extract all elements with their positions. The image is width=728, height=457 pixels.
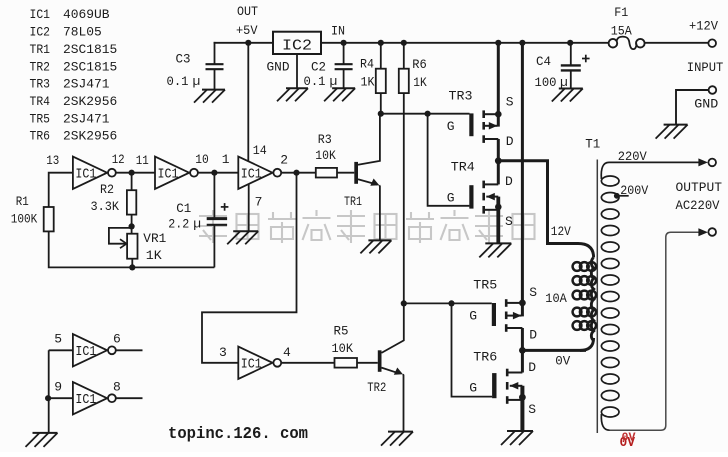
- transistor Q TR1 2SC1815: [344, 114, 380, 241]
- svg-text:R1: R1: [16, 194, 29, 209]
- svg-text:D: D: [505, 174, 513, 189]
- capacitor C4 100u: [535, 40, 590, 90]
- svg-text:IC1: IC1: [75, 167, 96, 182]
- op-amp (inverter) IC1 D pins 3-4: [238, 347, 281, 379]
- svg-text:TR4: TR4: [30, 94, 51, 109]
- resistor R6 1K: [399, 40, 427, 304]
- svg-text:OUT: OUT: [237, 4, 258, 19]
- wire pin13 input: [49, 173, 73, 207]
- svg-text:R5: R5: [334, 324, 349, 339]
- svg-text:µ: µ: [330, 74, 338, 89]
- svg-text:IC1: IC1: [75, 345, 96, 360]
- svg-text:G: G: [469, 308, 477, 323]
- svg-text:IC2: IC2: [282, 38, 312, 54]
- svg-text:0V: 0V: [555, 354, 570, 369]
- svg-text:topinc.126. com: topinc.126. com: [168, 424, 308, 443]
- svg-text:2SC1815: 2SC1815: [63, 42, 117, 57]
- transformer T1 core: [596, 160, 598, 434]
- svg-text:11: 11: [136, 153, 149, 168]
- svg-text:7: 7: [255, 194, 263, 209]
- svg-text:R3: R3: [318, 132, 332, 147]
- svg-text:12V: 12V: [551, 224, 571, 239]
- ground for pin 7: [227, 231, 258, 244]
- resistor R2 3.3K: [91, 173, 137, 227]
- svg-text:G: G: [469, 381, 477, 396]
- op-amp (inverter) IC1 A pins 13-12: [73, 157, 116, 189]
- svg-text:8: 8: [113, 379, 121, 394]
- ground for IC2: [277, 88, 308, 101]
- resistor R4 1K: [360, 40, 386, 114]
- svg-text:+5V: +5V: [236, 23, 258, 38]
- wire 220V output top: [609, 158, 716, 166]
- svg-text:2SK2956: 2SK2956: [63, 129, 117, 144]
- svg-text:IC1: IC1: [158, 167, 179, 182]
- wire TR1 collector to TR3/TR4 gates: [378, 111, 470, 206]
- op-amp (inverter) IC1 F pins 9-8: [73, 382, 116, 414]
- svg-text:9: 9: [54, 379, 62, 394]
- label 0V red marking: [620, 431, 637, 452]
- svg-text:AC220V: AC220V: [676, 198, 720, 213]
- transistor Q TR4 2SK2956: [447, 159, 513, 243]
- wire inverter B out to inverter C: [197, 170, 238, 176]
- node OUT +5V: [236, 4, 258, 46]
- svg-text:0.1: 0.1: [167, 74, 189, 89]
- svg-text:100: 100: [535, 75, 557, 90]
- svg-text:TR1: TR1: [30, 42, 51, 57]
- wire secondary bottom return to output: [610, 232, 699, 430]
- wire fuse to +12V terminal: [645, 42, 709, 44]
- svg-text:VR1: VR1: [143, 231, 166, 246]
- svg-text:13: 13: [46, 153, 59, 168]
- svg-text:TR5: TR5: [30, 111, 51, 126]
- svg-text:0.1: 0.1: [304, 74, 326, 89]
- svg-text:10A: 10A: [545, 291, 567, 306]
- svg-text:10: 10: [195, 152, 209, 167]
- svg-text:100K: 100K: [11, 212, 38, 227]
- parts list table: [30, 7, 118, 143]
- op-amp (inverter) IC1 B pins 11-10: [155, 157, 198, 189]
- svg-text:TR5: TR5: [473, 277, 497, 292]
- svg-text:4069UB: 4069UB: [63, 7, 110, 22]
- svg-text:C3: C3: [176, 52, 191, 67]
- svg-text:TR6: TR6: [473, 349, 497, 364]
- watermark gray CJK text: [199, 210, 535, 243]
- node 200V tap: [614, 193, 629, 199]
- svg-text:TR3: TR3: [449, 89, 473, 104]
- svg-text:GND: GND: [694, 97, 718, 112]
- transistor Q TR5 2SJ471: [469, 277, 537, 350]
- svg-text:2: 2: [280, 153, 288, 168]
- svg-text:G: G: [447, 191, 455, 206]
- svg-text:+12V: +12V: [689, 19, 718, 34]
- svg-text:IC2: IC2: [30, 25, 51, 40]
- wire inverters E/F inputs to ground: [45, 350, 73, 433]
- svg-text:TR2: TR2: [30, 59, 51, 74]
- svg-text:IC1: IC1: [30, 7, 51, 22]
- svg-text:T1: T1: [585, 137, 600, 152]
- transistor Q TR6 2SK2956: [469, 349, 536, 431]
- svg-text:µ: µ: [193, 74, 201, 89]
- svg-text:2SC1815: 2SC1815: [63, 59, 117, 74]
- svg-text:IN: IN: [331, 23, 345, 38]
- ground for C2: [324, 88, 355, 101]
- wire 0V node to transformer primary bottom: [519, 347, 586, 354]
- svg-text:IC1: IC1: [75, 393, 96, 408]
- svg-text:IC1: IC1: [241, 167, 262, 182]
- wire 12V node to transformer primary top: [495, 157, 578, 243]
- potentiometer VR1 1K: [109, 223, 167, 270]
- svg-text:TR6: TR6: [30, 129, 51, 144]
- ground for C4: [552, 89, 583, 102]
- wire inverter F output stub: [115, 397, 142, 399]
- ground for GND input: [656, 125, 688, 139]
- fuse F1 15A: [609, 5, 645, 49]
- svg-text:GND: GND: [267, 59, 290, 74]
- svg-text:10K: 10K: [315, 148, 336, 163]
- ground for C3: [194, 90, 225, 103]
- svg-text:6: 6: [113, 331, 121, 346]
- svg-text:15A: 15A: [611, 23, 632, 38]
- svg-text:2SJ471: 2SJ471: [63, 77, 110, 92]
- svg-text:14: 14: [253, 143, 267, 158]
- svg-text:IC1: IC1: [241, 357, 262, 372]
- op-amp (inverter) IC1 C pins 1-2: [238, 157, 281, 189]
- wire inverter C out to R3: [281, 170, 316, 176]
- wire inverter E input: [49, 349, 73, 351]
- svg-text:2SJ471: 2SJ471: [63, 111, 110, 126]
- svg-text:R6: R6: [412, 57, 427, 72]
- svg-text:78L05: 78L05: [63, 25, 102, 40]
- wire inverter D out to R5: [281, 362, 335, 364]
- node GND input terminal: [676, 86, 719, 124]
- svg-text:10K: 10K: [332, 341, 354, 356]
- wire IC2 GND pin: [296, 54, 298, 88]
- resistor R3 10K: [315, 132, 354, 178]
- ground for TR1 emitter: [360, 240, 391, 253]
- op-amp (regulator) U IC2 78L05 box: [273, 32, 321, 55]
- svg-text:1K: 1K: [361, 75, 375, 90]
- svg-text:2.2: 2.2: [168, 217, 189, 232]
- svg-text:TR1: TR1: [344, 194, 362, 209]
- capacitor C3: [167, 42, 224, 90]
- resistor R5 10K: [332, 324, 378, 368]
- svg-text:C2: C2: [311, 59, 326, 74]
- wire TR2 collector to TR5/TR6 gates: [401, 300, 492, 396]
- svg-text:C4: C4: [536, 54, 551, 69]
- svg-text:200V: 200V: [620, 183, 648, 198]
- svg-text:0V: 0V: [622, 431, 637, 445]
- svg-text:1: 1: [222, 152, 230, 167]
- svg-text:INPUT: INPUT: [687, 60, 724, 75]
- ground for TR2 emitter: [381, 432, 413, 446]
- svg-text:1K: 1K: [413, 75, 427, 90]
- node IN: [331, 23, 347, 46]
- ground for TR6 source: [501, 431, 533, 445]
- svg-text:F1: F1: [614, 5, 628, 20]
- svg-text:12: 12: [112, 152, 125, 167]
- wire inverter A out to node: [115, 170, 155, 176]
- svg-text:D: D: [528, 360, 536, 375]
- svg-text:4: 4: [283, 345, 291, 360]
- svg-text:D: D: [506, 134, 514, 149]
- node +12V input terminal: [689, 19, 718, 47]
- wire R1 to bottom rail: [49, 231, 215, 267]
- svg-text:R2: R2: [100, 182, 114, 197]
- svg-text:µ: µ: [193, 217, 201, 232]
- wire +12V rail down to TR5 source: [519, 40, 525, 303]
- wire pin 7 to ground: [248, 184, 250, 231]
- node AC220V lower terminal: [698, 228, 716, 236]
- svg-text:TR2: TR2: [367, 380, 386, 395]
- svg-text:3: 3: [219, 345, 227, 360]
- svg-text:S: S: [529, 285, 537, 300]
- svg-text:220V: 220V: [618, 149, 647, 164]
- transistor Q TR2 2SC1815: [367, 303, 404, 431]
- wire pin2 node to inverter D input: [202, 173, 297, 363]
- wire +12V top rail: [214, 42, 609, 44]
- transformer T1 primary winding: [573, 244, 596, 351]
- wire pin 14 to +5V: [247, 43, 249, 161]
- transformer T1 secondary winding: [601, 162, 619, 430]
- svg-text:OUTPUT: OUTPUT: [676, 180, 723, 195]
- ground for unused inverter inputs: [26, 433, 58, 447]
- svg-text:D: D: [529, 327, 537, 342]
- svg-text:R4: R4: [360, 57, 374, 72]
- svg-text:TR4: TR4: [451, 159, 475, 174]
- wire inverter E output stub: [115, 349, 142, 351]
- capacitor C2: [304, 42, 353, 89]
- svg-text:S: S: [506, 95, 514, 110]
- resistor R1 100K: [11, 194, 54, 231]
- op-amp (inverter) IC1 E pins 5-6: [73, 334, 116, 366]
- svg-text:2SK2956: 2SK2956: [63, 94, 117, 109]
- capacitor C1 2.2u: [168, 173, 228, 268]
- svg-text:5: 5: [54, 331, 62, 346]
- svg-text:TR3: TR3: [30, 77, 51, 92]
- svg-text:S: S: [505, 214, 513, 229]
- svg-text:C1: C1: [176, 201, 191, 216]
- ground for TR4 source: [479, 243, 511, 257]
- svg-text:G: G: [447, 119, 455, 134]
- svg-text:1K: 1K: [146, 248, 162, 263]
- svg-text:3.3K: 3.3K: [91, 199, 120, 214]
- transistor Q TR3 2SJ471: [447, 40, 514, 161]
- svg-text:S: S: [528, 402, 536, 417]
